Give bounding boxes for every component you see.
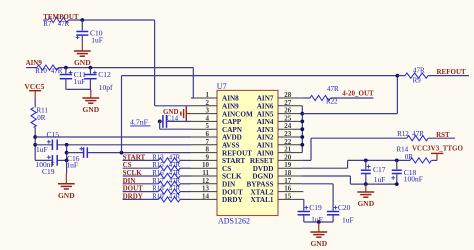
svg-text:13: 13 — [202, 185, 210, 193]
svg-text:12: 12 — [202, 177, 210, 185]
svg-text:C19: C19 — [309, 203, 322, 212]
svg-text:AIN9: AIN9 — [222, 103, 239, 111]
svg-text:DRDY: DRDY — [123, 192, 143, 200]
svg-text:18: 18 — [284, 169, 292, 177]
svg-text:START: START — [123, 153, 146, 161]
svg-text:24: 24 — [284, 122, 292, 130]
svg-text:47R: 47R — [169, 193, 181, 200]
svg-text:R17: R17 — [152, 178, 164, 185]
svg-text:9: 9 — [206, 153, 210, 161]
svg-text:DVDD: DVDD — [253, 165, 274, 173]
svg-text:DRDY: DRDY — [222, 196, 244, 204]
svg-text:6: 6 — [206, 130, 210, 138]
svg-text:R9: R9 — [413, 76, 422, 84]
svg-text:DIN: DIN — [222, 181, 236, 189]
svg-text:19: 19 — [284, 161, 292, 169]
svg-text:SCLK: SCLK — [222, 173, 242, 181]
svg-text:17: 17 — [284, 177, 292, 185]
svg-text:5: 5 — [206, 122, 210, 130]
svg-text:1uF: 1uF — [74, 77, 86, 86]
svg-text:R7: R7 — [43, 20, 52, 28]
svg-text:RST: RST — [436, 131, 450, 139]
svg-text:R16: R16 — [152, 170, 164, 177]
svg-text:C14: C14 — [167, 114, 179, 122]
svg-text:C17: C17 — [373, 165, 386, 174]
svg-text:100nF: 100nF — [404, 174, 423, 183]
svg-text:GND: GND — [357, 199, 374, 208]
svg-text:CAPP: CAPP — [222, 118, 242, 126]
svg-text:DIN: DIN — [123, 177, 136, 185]
svg-text:VCC5: VCC5 — [24, 82, 44, 91]
svg-text:AIN9: AIN9 — [26, 59, 43, 67]
svg-text:0R: 0R — [37, 114, 46, 122]
svg-text:3: 3 — [206, 107, 210, 115]
svg-text:U7: U7 — [217, 82, 227, 91]
svg-text:AIN2: AIN2 — [257, 134, 274, 142]
svg-text:CS: CS — [222, 165, 231, 173]
svg-text:47R: 47R — [169, 162, 181, 169]
svg-text:14: 14 — [202, 192, 210, 200]
svg-text:21: 21 — [284, 146, 292, 154]
svg-text:R15: R15 — [152, 162, 164, 169]
svg-text:DGND: DGND — [252, 173, 273, 181]
svg-text:47R: 47R — [169, 178, 181, 185]
svg-text:4.7nF: 4.7nF — [130, 118, 149, 127]
svg-text:20: 20 — [284, 153, 292, 161]
svg-text:10: 10 — [202, 161, 210, 169]
svg-text:C12: C12 — [98, 70, 111, 79]
svg-text:GND: GND — [58, 191, 75, 200]
svg-text:28: 28 — [284, 91, 292, 99]
svg-text:23: 23 — [284, 130, 292, 138]
svg-text:1: 1 — [206, 91, 210, 99]
svg-text:DOUT: DOUT — [123, 185, 144, 193]
svg-text:1uF: 1uF — [342, 215, 354, 224]
svg-text:R19: R19 — [152, 193, 164, 200]
svg-text:START: START — [222, 157, 245, 165]
svg-text:XTAL1: XTAL1 — [250, 196, 273, 204]
svg-text:C19: C19 — [42, 167, 55, 176]
svg-text:47R: 47R — [51, 67, 63, 75]
svg-text:GND: GND — [82, 105, 99, 114]
svg-text:1uF: 1uF — [66, 161, 78, 170]
svg-text:47R: 47R — [169, 170, 181, 177]
svg-text:1uF: 1uF — [374, 175, 386, 184]
svg-text:R10: R10 — [35, 67, 47, 75]
svg-text:10pf: 10pf — [99, 83, 113, 92]
svg-text:C15: C15 — [47, 130, 60, 139]
svg-text:26: 26 — [284, 107, 292, 115]
svg-text:AIN5: AIN5 — [257, 110, 274, 118]
svg-text:0R: 0R — [405, 153, 414, 161]
svg-text:GND: GND — [310, 239, 327, 248]
svg-text:REFOUT: REFOUT — [222, 149, 252, 157]
svg-text:AIN8: AIN8 — [222, 95, 239, 103]
svg-text:R22: R22 — [326, 97, 338, 105]
svg-text:R18: R18 — [152, 186, 164, 193]
svg-text:47R: 47R — [327, 85, 339, 93]
svg-text:VCC3V3_TTGO: VCC3V3_TTGO — [412, 145, 464, 153]
svg-text:RESET: RESET — [250, 157, 274, 165]
svg-text:27: 27 — [284, 99, 292, 107]
svg-text:1uF: 1uF — [36, 145, 48, 154]
svg-text:22: 22 — [284, 138, 292, 146]
svg-text:CS: CS — [123, 161, 132, 169]
svg-text:ADS1262: ADS1262 — [218, 216, 250, 225]
svg-text:AIN6: AIN6 — [257, 103, 274, 111]
svg-text:AVSS: AVSS — [222, 142, 239, 150]
svg-text:47R: 47R — [412, 130, 424, 138]
svg-text:15: 15 — [284, 192, 292, 200]
svg-text:7: 7 — [206, 138, 210, 146]
svg-text:AIN3: AIN3 — [257, 126, 274, 134]
svg-text:25: 25 — [284, 114, 292, 122]
svg-text:47R: 47R — [58, 20, 70, 28]
svg-text:C20: C20 — [338, 203, 351, 212]
svg-text:AIN4: AIN4 — [257, 118, 274, 126]
svg-text:AIN7: AIN7 — [257, 95, 274, 103]
svg-text:2: 2 — [206, 99, 210, 107]
svg-text:4: 4 — [206, 114, 210, 122]
svg-text:4-20_OUT: 4-20_OUT — [342, 89, 374, 97]
svg-text:1uF: 1uF — [91, 36, 103, 45]
svg-text:47R: 47R — [413, 67, 425, 75]
svg-text:R13: R13 — [152, 154, 164, 161]
svg-text:CAPN: CAPN — [222, 126, 243, 134]
svg-text:AINCOM: AINCOM — [222, 110, 253, 118]
svg-text:47R: 47R — [169, 186, 181, 193]
svg-text:8: 8 — [206, 146, 210, 154]
svg-text:1uF: 1uF — [311, 215, 323, 224]
svg-text:R12: R12 — [397, 130, 409, 138]
svg-text:DOUT: DOUT — [222, 188, 243, 196]
svg-text:SCLK: SCLK — [123, 169, 143, 177]
svg-text:11: 11 — [202, 169, 209, 177]
svg-text:BYPASS: BYPASS — [246, 181, 273, 189]
svg-text:16: 16 — [284, 185, 292, 193]
svg-text:AIN0: AIN0 — [257, 149, 274, 157]
svg-text:GND: GND — [74, 58, 91, 67]
svg-text:AVDD: AVDD — [222, 134, 242, 142]
svg-text:R14: R14 — [397, 145, 409, 153]
svg-text:47R: 47R — [169, 154, 181, 161]
svg-text:XTAL2: XTAL2 — [250, 188, 273, 196]
svg-text:REFOUT: REFOUT — [437, 68, 467, 76]
svg-text:AIN1: AIN1 — [257, 142, 274, 150]
